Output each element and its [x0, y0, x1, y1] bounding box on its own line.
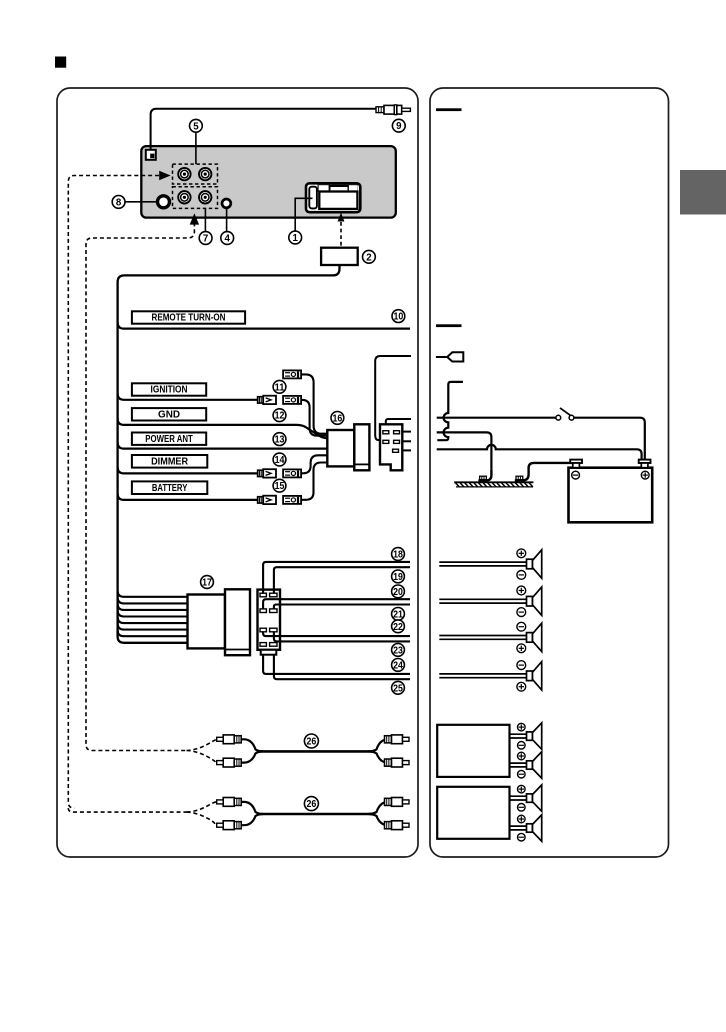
svg-text:24: 24: [393, 660, 403, 671]
svg-text:GND: GND: [158, 410, 180, 421]
svg-text:POWER ANT: POWER ANT: [145, 434, 193, 445]
svg-text:8: 8: [116, 197, 122, 208]
svg-text:19: 19: [393, 572, 403, 583]
svg-text:21: 21: [393, 609, 403, 620]
svg-text:22: 22: [393, 622, 403, 633]
svg-text:2: 2: [366, 252, 371, 263]
svg-text:4: 4: [225, 234, 231, 245]
svg-text:25: 25: [393, 683, 403, 694]
svg-text:26: 26: [307, 737, 317, 748]
svg-text:7: 7: [203, 234, 208, 245]
svg-text:20: 20: [393, 587, 403, 598]
svg-text:14: 14: [275, 455, 285, 466]
svg-text:10: 10: [394, 312, 404, 323]
svg-text:13: 13: [275, 435, 285, 446]
svg-text:BATTERY: BATTERY: [152, 483, 188, 494]
svg-text:15: 15: [275, 481, 285, 492]
svg-text:11: 11: [275, 382, 285, 393]
svg-text:26: 26: [307, 799, 317, 810]
svg-text:IGNITION: IGNITION: [151, 385, 188, 396]
svg-text:18: 18: [393, 550, 403, 561]
svg-text:16: 16: [333, 413, 343, 424]
svg-text:9: 9: [396, 121, 402, 132]
svg-text:17: 17: [202, 578, 212, 589]
svg-text:23: 23: [393, 645, 403, 656]
svg-text:12: 12: [275, 411, 285, 422]
svg-text:DIMMER: DIMMER: [151, 457, 188, 468]
svg-text:5: 5: [193, 121, 199, 132]
svg-text:1: 1: [293, 233, 299, 244]
svg-text:REMOTE TURN-ON: REMOTE TURN-ON: [152, 313, 226, 324]
